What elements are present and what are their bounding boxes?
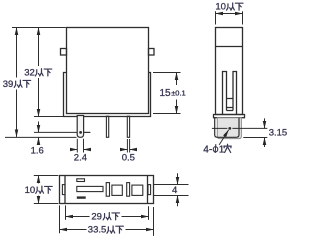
base flange <box>64 73 151 117</box>
slot bottom box rungs <box>227 99 234 111</box>
dimension 10以下 (top) <box>216 11 243 24</box>
dimension 39以下 <box>12 28 66 137</box>
svg-text:15: 15 <box>160 88 172 99</box>
pin tip line (front) <box>5 136 77 138</box>
svg-text:4-: 4- <box>203 145 212 156</box>
side pin tip line <box>243 137 267 139</box>
slot: vertical bar 2 <box>127 183 130 197</box>
pin hole dot <box>79 131 82 134</box>
side body outline <box>216 28 243 115</box>
svg-text:3.15: 3.15 <box>269 128 288 139</box>
hole line stub right of pin <box>84 131 91 133</box>
right slot <box>233 72 237 115</box>
bottom view outline <box>60 176 154 204</box>
dimension 32以下 <box>34 28 64 117</box>
dimension 0.5 <box>120 139 137 153</box>
side pin block shadow <box>217 118 241 139</box>
slot: vertical bar 1 <box>106 183 109 197</box>
slot: small top bar <box>77 179 85 182</box>
svg-text:2.4: 2.4 <box>74 152 87 163</box>
svg-text:1.6: 1.6 <box>31 146 44 157</box>
dimension 10以下 (left) <box>34 176 59 204</box>
svg-text:32: 32 <box>24 68 35 79</box>
slot: rectangle 2 <box>132 185 143 195</box>
side flange <box>214 115 245 118</box>
svg-text:10: 10 <box>215 2 226 13</box>
inner wall right <box>147 176 149 204</box>
wide pin with hole <box>77 116 83 138</box>
filled small bar <box>77 196 86 198</box>
side hole center line <box>212 127 267 129</box>
svg-text:29: 29 <box>91 212 102 223</box>
svg-text:0.5: 0.5 <box>122 152 135 163</box>
dimension 33.5以下 <box>60 205 154 236</box>
side hole dot <box>228 127 231 130</box>
hole center line (front) <box>34 131 90 133</box>
dimension 4 <box>154 173 189 206</box>
right latch tab <box>148 185 151 195</box>
slot: rectangle 1 <box>112 185 122 195</box>
left slot <box>223 72 227 115</box>
slot: long terminal bar <box>77 186 103 191</box>
svg-text:±0.1: ±0.1 <box>171 89 186 98</box>
svg-text:10: 10 <box>25 185 36 196</box>
dimension 3.15 <box>264 118 266 147</box>
narrow pin A <box>106 116 108 137</box>
svg-text:33.5: 33.5 <box>88 225 107 236</box>
inner wall left <box>64 176 66 204</box>
cover parting line <box>216 46 243 48</box>
right side tab <box>149 49 155 56</box>
left latch tab <box>62 185 65 195</box>
dimension 15±0.1 <box>153 73 181 114</box>
svg-text:39: 39 <box>3 79 14 90</box>
leader 4-phi-1 hole <box>219 130 228 145</box>
left side tab <box>61 49 67 56</box>
narrow pin B <box>127 116 129 137</box>
dimension 2.4 <box>70 139 90 153</box>
side pin front outline <box>215 118 239 138</box>
dimension 1.6 <box>38 122 40 145</box>
dimension 29以下 <box>66 205 149 220</box>
svg-text:4: 4 <box>172 185 177 196</box>
relay body outline <box>67 28 149 114</box>
